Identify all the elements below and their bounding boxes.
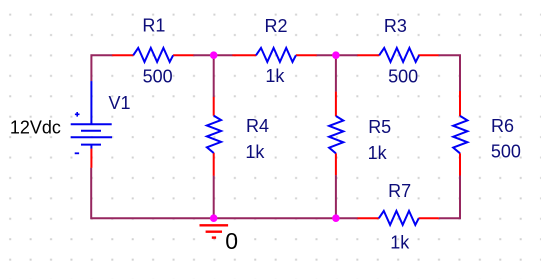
- wire R4 to ground node: [213, 176, 215, 219]
- svg-text:R3: R3: [384, 16, 407, 36]
- junction node B: [332, 51, 340, 59]
- resistor R3: [357, 48, 438, 62]
- V1 bottom pin: [90, 149, 92, 168]
- svg-text:R1: R1: [142, 16, 165, 36]
- svg-text:12Vdc: 12Vdc: [10, 117, 61, 137]
- wire node A down to R4: [213, 55, 215, 97]
- svg-text:R5: R5: [368, 117, 391, 137]
- junction node A: [210, 51, 218, 59]
- resistor R2: [232, 48, 317, 62]
- resistor R1: [112, 48, 193, 62]
- svg-text:R4: R4: [246, 116, 269, 136]
- svg-text:500: 500: [143, 66, 173, 86]
- svg-text:500: 500: [491, 142, 521, 162]
- junction bottom node B: [332, 214, 340, 222]
- voltage source V1: [71, 81, 112, 153]
- wire top-left corner to R1: [91, 55, 112, 81]
- wire R7 to bottom node B: [336, 217, 358, 219]
- resistor R7: [357, 211, 439, 225]
- wire node B down to R5: [335, 55, 337, 92]
- wire bottom node B to ground node: [214, 217, 336, 219]
- wire R6 to bottom-right corner to R7: [439, 176, 460, 219]
- wire ground node to bottom-left corner up to V1: [91, 168, 214, 219]
- wire node B to R3: [336, 54, 358, 56]
- svg-text:1k: 1k: [265, 66, 285, 86]
- svg-text:R7: R7: [388, 181, 411, 201]
- svg-text:1k: 1k: [390, 233, 410, 253]
- wire R3 to top-right corner down to R6: [439, 55, 460, 91]
- svg-text:1k: 1k: [245, 142, 265, 162]
- svg-text:R2: R2: [265, 16, 288, 36]
- ground 0: [200, 225, 229, 237]
- resistor R5: [329, 92, 343, 176]
- svg-text:R6: R6: [491, 116, 514, 136]
- wire R5 to bottom node B: [335, 175, 337, 218]
- wire R1 to node A: [193, 54, 213, 56]
- resistor R6: [453, 91, 467, 176]
- svg-text:V1: V1: [109, 93, 131, 113]
- resistor R4: [207, 97, 221, 176]
- wire node A to R2: [214, 54, 233, 56]
- svg-text:0: 0: [225, 228, 238, 254]
- svg-text:1k: 1k: [368, 143, 388, 163]
- wire R2 to node B: [317, 54, 336, 56]
- junction ground node: [210, 214, 218, 222]
- svg-text:500: 500: [388, 66, 418, 86]
